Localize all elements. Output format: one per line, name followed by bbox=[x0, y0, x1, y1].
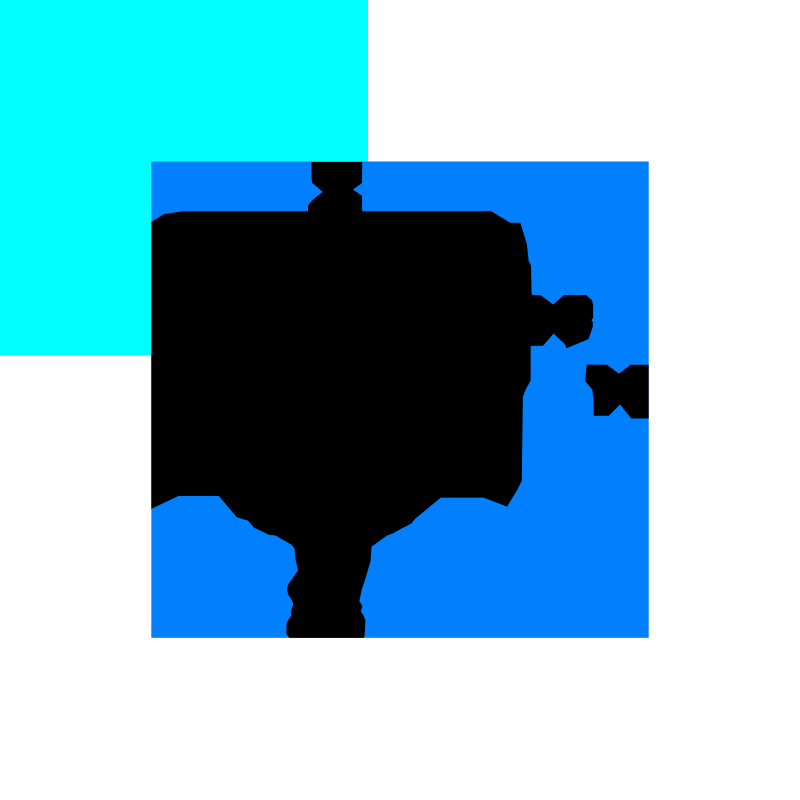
black blob with top valve, right valve and bottom hourglass column bbox=[151, 162, 593, 638]
separate right bowtie (valve) at blue rect right edge bbox=[585, 365, 649, 419]
cyan rectangle (top-left region) bbox=[0, 0, 368, 356]
blue rectangle (central region) bbox=[151, 162, 648, 638]
